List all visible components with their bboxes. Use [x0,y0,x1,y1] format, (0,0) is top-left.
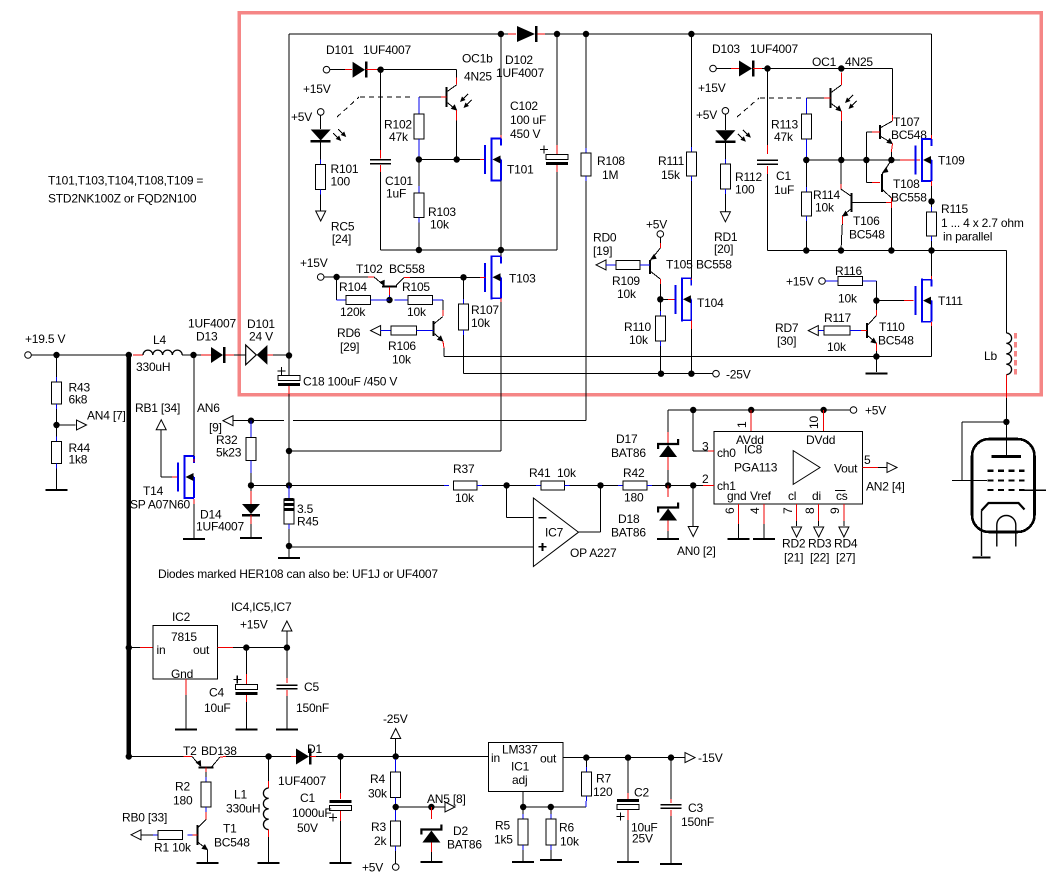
net arrow AN4 [7] [77,409,126,431]
wire R114 bottom [805,216,807,251]
svg-text:BAT86: BAT86 [611,526,646,540]
svg-text:BC548: BC548 [878,334,914,348]
net arrow RD4 [27] [834,527,858,565]
wire T105 collector [659,279,661,299]
resistor R42 [623,466,647,505]
svg-text:R37: R37 [453,462,475,476]
svg-text:DVdd: DVdd [806,433,835,447]
node rail T108 [888,247,894,253]
svg-text:D2: D2 [453,824,468,838]
note text T101 list [48,174,203,188]
wire R105-Tsmall collector [433,300,443,316]
transistor T102 pnp [356,262,425,287]
terminal +5V T105 [646,218,667,238]
svg-text:T107: T107 [893,115,920,129]
svg-text:+15V: +15V [300,256,328,270]
transistor T107 [880,115,927,144]
svg-text:L1: L1 [234,788,247,802]
svg-text:+5V: +5V [362,861,383,875]
svg-text:T2: T2 [183,744,197,758]
svg-text:10k: 10k [407,305,427,319]
svg-text:100 uF: 100 uF [510,113,546,127]
mosfet T101 [485,138,534,182]
wire R37-R41 [477,484,541,486]
svg-text:1M: 1M [602,168,618,182]
svg-text:IC2: IC2 [172,610,191,624]
svg-text:10k: 10k [827,340,847,354]
wire T104 gate [660,298,675,300]
svg-text:-25V: -25V [383,712,408,726]
node C2 top [625,754,631,760]
svg-text:10k: 10k [471,316,491,330]
wire +5V-LED [320,115,322,129]
transistor T small npn [434,317,444,342]
svg-text:100: 100 [735,183,755,197]
svg-text:10k: 10k [617,287,637,301]
svg-text:T101,T103,T104,T108,T109 =: T101,T103,T104,T108,T109 = [48,174,203,188]
node R104-R105 [386,297,392,303]
wire R116-T111 gate [876,281,913,301]
wire T109 drain [931,34,933,139]
svg-text:1UF4007: 1UF4007 [363,43,411,57]
wire R114 [805,160,807,192]
svg-text:D1: D1 [307,742,322,756]
svg-text:RB1 [34]: RB1 [34] [135,401,180,415]
wire OC1 base [806,97,830,99]
svg-text:R2: R2 [175,780,190,794]
svg-text:1UF4007: 1UF4007 [278,774,326,788]
svg-text:BAT86: BAT86 [447,838,482,852]
svg-text:R106: R106 [388,339,416,353]
node +15V T102 [333,274,339,280]
svg-text:D13: D13 [196,330,218,344]
note HER108 [158,567,438,581]
svg-text:IC8: IC8 [744,443,763,457]
node AN6 R32 [248,418,254,424]
capacitor C18 [278,355,398,451]
op-amp IC7 [533,498,617,567]
resistor R104 [339,280,371,319]
svg-text:C3: C3 [688,801,703,815]
node adj R5 [520,804,526,810]
svg-text:R42: R42 [623,466,645,480]
node tube top [1003,419,1009,425]
ground pin6 [728,538,750,540]
wire T14 source [193,499,195,538]
resistor R101 [316,162,359,190]
net arrow AN0 [2] [677,527,716,559]
svg-text:cs: cs [836,489,848,503]
svg-text:+19.5 V: +19.5 V [25,332,65,346]
wire +15V-D101 [330,69,352,71]
wire R104-node [371,299,390,301]
svg-text:+5V: +5V [646,218,667,232]
wire OC1 emitter [840,111,842,160]
node T110 emitter rail [873,353,879,359]
resistor R5 [494,807,528,861]
capacitor C2 [617,758,658,861]
wire T107 collector [892,69,894,122]
resistor R1 [141,830,192,854]
svg-text:1UF4007: 1UF4007 [196,520,244,534]
svg-text:T108: T108 [893,177,920,191]
wire LED-R112 [724,142,726,164]
svg-text:Lb: Lb [984,349,997,363]
svg-text:in: in [491,751,500,765]
svg-text:T14: T14 [143,484,164,498]
wire T102 base [389,287,391,300]
svg-text:30k: 30k [368,787,388,801]
node adj R6 [548,804,554,810]
svg-text:[21]: [21] [784,551,803,565]
resistor R105 [395,280,433,319]
svg-text:T109: T109 [938,154,965,168]
svg-text:RD7: RD7 [775,321,799,335]
ground C1 [330,862,352,864]
terminal +19.5V [25,332,66,358]
svg-text:3: 3 [702,440,709,454]
terminal +15V T102 [300,256,328,280]
wire R42-D17 node [647,484,693,486]
resistor R7 [581,758,613,801]
svg-text:24 V: 24 V [249,330,273,344]
node R4 -25V [393,753,399,759]
wire IC2 gnd pin [185,679,187,729]
wire RB1-T14 gate [161,430,178,477]
wire T104 source [690,320,692,373]
node top T101 [498,31,504,37]
svg-text:BC558: BC558 [696,258,732,272]
node C4 [243,644,249,650]
svg-text:AN2 [4]: AN2 [4] [866,480,905,494]
wire T110 emitter [875,343,877,357]
wire adj pin [522,791,524,807]
svg-text:R111: R111 [658,154,685,168]
svg-text:[24]: [24] [332,232,351,246]
wire Vout pin5 [863,453,887,468]
svg-text:1UF4007: 1UF4007 [496,66,544,80]
svg-text:RD3: RD3 [808,537,832,551]
svg-text:6k8: 6k8 [69,393,88,407]
svg-text:C5: C5 [304,680,319,694]
wire right half left rail [767,69,769,155]
LED D right [715,130,751,142]
wire T2 collector [220,756,269,759]
svg-text:47k: 47k [389,130,409,144]
svg-text:Vref: Vref [750,489,772,503]
node D101 out [377,67,383,73]
svg-text:+5V: +5V [865,404,886,418]
node +5V pin1 [748,407,754,413]
wire R103 gnd rail [418,218,420,251]
wire R101-RC5 [320,190,322,212]
wire C18 gnd [288,546,290,557]
svg-text:T110: T110 [879,320,905,334]
diode D102 [496,26,544,80]
svg-text:[20]: [20] [714,242,733,256]
svg-text:5k23: 5k23 [216,446,242,460]
resistor R6 [546,807,580,859]
resistor R117 [818,311,867,354]
node bus IC2 [126,644,132,650]
wire T111 source [931,322,933,357]
svg-text:[19]: [19] [593,244,612,258]
resistor R43 [52,381,91,407]
node +5V pin10 [820,407,826,413]
ground tube cathode [973,556,991,558]
resistor R4 [368,757,401,801]
svg-text:RD4: RD4 [834,537,858,551]
svg-text:8: 8 [803,507,817,514]
net arrow +15V out [231,600,292,632]
node rail T106 [838,247,844,253]
wire pin4 gnd [748,504,764,538]
wire T104 drain [690,278,692,280]
wire Tsmall emitter [443,341,932,357]
svg-text:D17: D17 [616,432,638,446]
svg-text:2k: 2k [374,834,387,848]
ground T1 [197,862,219,864]
wire +15V-T102 [324,276,374,278]
svg-text:120: 120 [593,785,613,799]
svg-text:R45: R45 [297,515,319,529]
wire tube grid loop [952,422,1006,481]
node mid emitters [888,157,894,163]
node D103 out [764,65,770,71]
svg-text:OC1: OC1 [812,55,837,69]
svg-text:1 ... 4 x 2.7 ohm: 1 ... 4 x 2.7 ohm [941,216,1024,230]
diode D101 24V transil [246,317,289,365]
svg-text:4: 4 [748,507,762,514]
node T110 collector [873,297,879,303]
node rail R115 T111 [928,247,934,253]
svg-text:10k: 10k [815,201,835,215]
vacuum tube [972,439,1046,556]
diode D14 [196,485,260,537]
wire T111 drain [931,251,933,280]
node top C102 [554,31,560,37]
ground T14 [183,538,205,540]
svg-text:LM337: LM337 [502,743,538,757]
resistor R102 [384,97,424,160]
terminal +5V IC8 [850,404,886,418]
net arrow RD2 [21] [782,527,806,565]
wire pin1 [735,410,751,431]
wire base tie T107 T108 [866,132,880,182]
svg-text:R4: R4 [370,772,385,786]
net arrow -25V [383,712,408,757]
svg-text:10k: 10k [838,292,858,306]
wire ch1 [693,472,714,486]
net arrow AN5 [8] [427,792,466,812]
node L4-D13 T14 drain [190,352,196,358]
capacitor C101 [370,70,413,250]
ground IC2 [175,728,197,730]
svg-text:R105: R105 [402,280,430,294]
svg-text:T106: T106 [853,214,880,228]
net arrow RC5 [24] [316,211,355,246]
svg-text:+15V: +15V [240,618,268,632]
svg-text:D103: D103 [712,42,740,56]
node top T104 [688,31,694,37]
svg-text:C1: C1 [776,169,791,183]
node R37 fb [503,482,509,488]
mosfet T111 [916,279,964,323]
svg-text:R104: R104 [339,280,367,294]
svg-text:9: 9 [828,507,842,514]
svg-text:R108: R108 [597,154,625,168]
wire T1 emitter gnd [207,850,209,863]
wire T14 drain [193,355,195,462]
capacitor C4 [204,648,257,729]
wire C1-R4 rail [341,756,489,758]
resistor R2 [173,780,211,808]
svg-text:T102: T102 [356,262,383,276]
wire +5V-LED right [724,114,726,130]
LED D left [311,129,347,141]
wire R3-+5V [395,846,397,864]
resistor R111 [658,34,696,280]
node rail T101-T103 [498,247,504,253]
wire AN6 line [233,418,586,421]
svg-text:D101: D101 [326,43,354,57]
wire input rail [31,354,246,356]
svg-text:+15V: +15V [303,82,331,96]
wire bottom rail right half [768,250,1007,252]
svg-text:7: 7 [781,507,795,514]
ground R5 [512,861,534,863]
wire R43-R44 [56,404,58,442]
node rail R114 [803,247,809,253]
wire T2 base-R2 [205,767,207,782]
svg-text:4N25: 4N25 [464,70,492,84]
transistor T108 [882,160,928,205]
wire mid rail right [806,159,920,161]
ground D18 [657,538,679,540]
svg-text:6: 6 [723,507,737,514]
svg-text:150nF: 150nF [296,701,329,715]
svg-text:1: 1 [735,421,749,428]
node bus T2 [126,753,132,759]
wire IC2 out [218,647,287,649]
svg-text:RD0: RD0 [593,231,617,245]
node C5 [284,644,290,650]
svg-text:R6: R6 [559,821,574,835]
svg-text:RD6: RD6 [337,326,361,340]
resistor R113 [771,98,811,160]
svg-text:120k: 120k [340,305,366,319]
wire R41-R42 [565,484,624,486]
svg-text:T104: T104 [697,296,724,310]
svg-text:330uH: 330uH [226,802,260,816]
ground R44 [46,489,68,491]
net arrow RD6 [29] [337,326,381,354]
wire rail 451 [289,450,501,452]
wire OC1b emitter [456,110,458,160]
node mid R113 [803,157,809,163]
diode D18 BAT86 [611,485,678,539]
wire rail 485 left [251,484,289,486]
svg-text:10uF: 10uF [204,701,231,715]
wire T103 source long [289,298,501,451]
svg-text:BC548: BC548 [849,228,885,242]
svg-text:180: 180 [624,491,644,505]
wire IC7 minus [507,485,534,517]
transistor T2 pnp [183,744,237,767]
node mid OC1b emitter [454,156,460,162]
node ch1 AN0 [690,482,696,488]
wire D103 out [753,68,893,70]
mosfet T103 [485,255,536,299]
net arrow RB1 [34] [135,401,180,430]
transistor T110 [867,301,914,348]
svg-text:1uF: 1uF [774,183,794,197]
svg-text:T101: T101 [507,163,534,177]
svg-text:10k: 10k [629,333,649,347]
svg-text:AN5 [8]: AN5 [8] [427,792,466,806]
wire AN0 [692,485,694,526]
svg-text:10k: 10k [430,218,450,232]
net arrow RD7 [30] [775,321,818,348]
svg-text:10k: 10k [560,835,580,849]
svg-text:T1: T1 [223,822,237,836]
resistor R107 [459,277,500,373]
node OC1 collector [838,65,844,71]
svg-text:D18: D18 [618,512,640,526]
svg-text:adj: adj [512,773,527,787]
ground C3 [660,863,682,865]
svg-text:AN6: AN6 [197,401,220,415]
node T104 gate [657,296,663,302]
wire AN5 line [396,806,445,808]
inductor Lb [984,251,1012,391]
red frame [239,13,1041,395]
svg-text:4N25: 4N25 [845,55,873,69]
node mid left R102 [416,156,422,162]
svg-text:PGA113: PGA113 [734,461,778,475]
node input-bus [126,352,132,358]
node C3 top [668,754,674,760]
wire T108 collector [890,198,892,251]
svg-text:C2: C2 [634,786,649,800]
inductor L1 [226,757,269,863]
wire R43 top [56,355,58,382]
terminal +5V left [291,109,324,124]
node C18 R32rail [286,448,292,454]
svg-text:D102: D102 [505,53,533,67]
dashed line right [737,98,801,117]
svg-text:di: di [812,489,821,503]
svg-text:T103: T103 [509,272,536,286]
wire OC1b base [419,96,447,98]
mosfet T104 [675,277,724,321]
bus wire thick [127,355,132,758]
svg-text:-25V: -25V [726,368,751,382]
capacitor C3 [661,758,715,863]
svg-text:100: 100 [331,175,351,189]
wire T101 source [500,181,502,251]
svg-text:R116: R116 [835,264,863,278]
svg-text:OC1b: OC1b [462,52,493,66]
net arrow RD1 [20] [714,212,738,256]
terminal +5V right [696,108,729,123]
resistor R103 [414,164,457,232]
diode D2 BAT86 [421,807,482,861]
net arrow AN2 [4] [866,463,905,494]
wire bus-T2 [129,756,192,758]
ground C5 [276,728,298,730]
svg-text:R109: R109 [612,274,640,288]
